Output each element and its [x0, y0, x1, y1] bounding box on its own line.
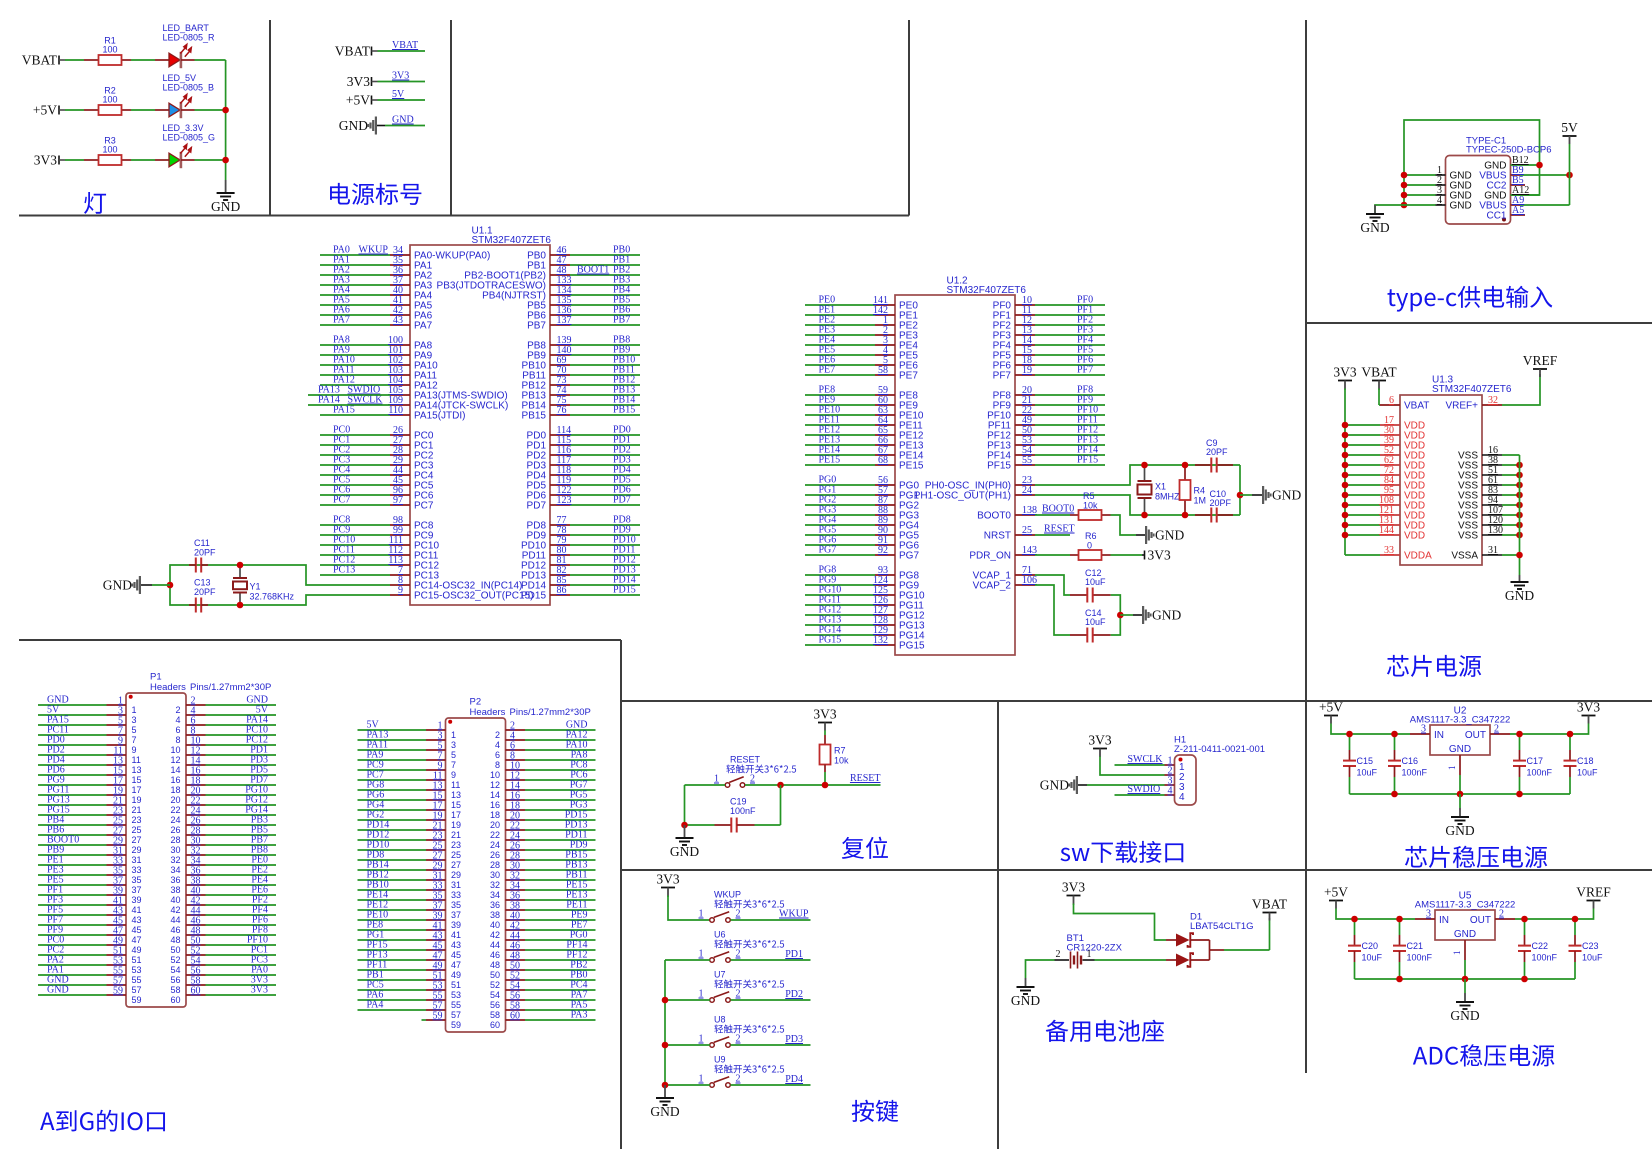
- svg-text:+5V: +5V: [1319, 700, 1343, 715]
- pin 114: [570, 434, 640, 436]
- pin 124: [805, 584, 875, 586]
- svg-text:100: 100: [102, 45, 117, 55]
- wire ph0 to osc loop: [1035, 465, 1240, 485]
- svg-text:100nF: 100nF: [1407, 953, 1433, 963]
- svg-text:C15: C15: [1357, 756, 1374, 766]
- svg-text:BOOT0: BOOT0: [977, 511, 1011, 522]
- svg-text:54: 54: [490, 990, 500, 1000]
- svg-text:3V3: 3V3: [1577, 700, 1600, 715]
- pin 4: [1165, 794, 1175, 796]
- pin 108 VDD: [1345, 504, 1380, 506]
- IC U1.2 STM32F407ZET6: [895, 295, 1015, 655]
- svg-text:3V3: 3V3: [1148, 548, 1171, 563]
- wire: [195, 59, 226, 61]
- pin 128: [805, 624, 875, 626]
- junction: [681, 822, 688, 829]
- svg-text:59: 59: [113, 985, 123, 996]
- svg-text:1: 1: [451, 730, 456, 740]
- svg-text:PA15: PA15: [333, 405, 355, 416]
- pin 81: [570, 564, 640, 566]
- pin 98: [320, 524, 390, 526]
- wire: [1035, 534, 1070, 536]
- svg-text:PA14: PA14: [318, 395, 340, 406]
- pin 65: [805, 434, 875, 436]
- pin 99: [320, 534, 390, 536]
- svg-text:NRST: NRST: [984, 531, 1011, 542]
- svg-text:PF15: PF15: [1077, 455, 1098, 466]
- svg-text:GND: GND: [650, 1104, 679, 1119]
- svg-text:3: 3: [1426, 909, 1431, 920]
- pin 36: [320, 274, 390, 276]
- pin 1: [426, 729, 446, 731]
- ground: [684, 825, 686, 838]
- svg-text:RESET: RESET: [1044, 524, 1075, 535]
- svg-text:PD1: PD1: [785, 949, 803, 960]
- svg-text:PD3: PD3: [785, 1034, 803, 1045]
- svg-text:C19: C19: [730, 797, 747, 807]
- svg-text:26: 26: [170, 825, 180, 835]
- wire button gnd rail: [664, 960, 666, 1085]
- pin 113: [320, 564, 390, 566]
- svg-text:3V3: 3V3: [1333, 365, 1356, 380]
- pin 64: [805, 424, 875, 426]
- pin 91: [805, 544, 875, 546]
- wire: [731, 1044, 811, 1046]
- junction: [662, 997, 669, 1004]
- svg-text:30: 30: [490, 870, 500, 880]
- connector P2 Headers Pins/1.27mm2*30P: [446, 718, 506, 1032]
- svg-text:100nF: 100nF: [730, 806, 756, 816]
- svg-text:GND: GND: [1155, 528, 1184, 543]
- pin 2 OUT: [1495, 918, 1515, 920]
- pin 54: [186, 964, 206, 966]
- wire: [1111, 615, 1121, 635]
- wire: [152, 584, 170, 586]
- junction: [822, 782, 829, 789]
- svg-text:PDR_ON: PDR_ON: [969, 551, 1011, 562]
- pin 75: [570, 404, 640, 406]
- pin 44: [186, 914, 206, 916]
- pin 76: [570, 414, 640, 416]
- ground: [1025, 978, 1027, 987]
- pin 37: [107, 884, 127, 886]
- pin 48: [506, 959, 526, 961]
- svg-text:41: 41: [451, 930, 461, 940]
- wire: [1095, 959, 1167, 961]
- svg-text:138: 138: [1022, 505, 1037, 516]
- svg-text:22: 22: [490, 830, 500, 840]
- wire: [780, 785, 782, 825]
- pin B12 GND: [1511, 164, 1540, 166]
- pin 23 PH0-OSC_IN(PH0): [1015, 484, 1035, 486]
- svg-text:110: 110: [388, 405, 403, 416]
- svg-text:GND: GND: [392, 115, 414, 126]
- svg-text:IN: IN: [1439, 915, 1449, 926]
- pin 50: [1035, 434, 1105, 436]
- wire: [685, 784, 726, 786]
- wire: [1026, 960, 1055, 978]
- svg-text:10uF: 10uF: [1577, 768, 1598, 778]
- pin 11: [426, 779, 446, 781]
- pin 94 VSS: [1482, 504, 1502, 506]
- pin 20: [186, 794, 206, 796]
- svg-text:PD7: PD7: [527, 501, 547, 512]
- pin 20: [506, 819, 526, 821]
- pin 88: [805, 514, 875, 516]
- svg-text:44: 44: [490, 940, 500, 950]
- svg-text:2: 2: [736, 909, 741, 920]
- svg-text:PE7: PE7: [899, 371, 918, 382]
- svg-text:31: 31: [451, 880, 461, 890]
- svg-text:59: 59: [451, 1020, 461, 1030]
- pin 9: [426, 769, 446, 771]
- pin 51 VSS: [1482, 474, 1502, 476]
- section title 芯片稳压电源: [1405, 846, 1547, 868]
- pin 53: [1035, 444, 1105, 446]
- pin 33: [107, 864, 127, 866]
- pin 56: [805, 484, 875, 486]
- svg-text:50: 50: [490, 970, 500, 980]
- crystal Y1: [239, 565, 241, 578]
- pin 12: [186, 754, 206, 756]
- pin A9 VBUS: [1511, 204, 1521, 206]
- pin 22: [506, 829, 526, 831]
- wire: [1115, 794, 1165, 796]
- svg-text:32: 32: [490, 880, 500, 890]
- svg-text:10: 10: [170, 745, 180, 755]
- pin 87: [805, 504, 875, 506]
- svg-text:1: 1: [1452, 951, 1462, 956]
- svg-text:14: 14: [490, 790, 500, 800]
- svg-text:24: 24: [490, 840, 500, 850]
- svg-text:PB7: PB7: [613, 315, 630, 326]
- pin 70: [570, 374, 640, 376]
- svg-text:C11: C11: [194, 538, 210, 548]
- ground: [1252, 494, 1262, 496]
- svg-text:59: 59: [132, 995, 142, 1005]
- capacitor C12: [1070, 594, 1087, 596]
- pin 115: [570, 444, 640, 446]
- pin 3 IN: [1415, 918, 1435, 920]
- pin 1 GND: [1436, 174, 1446, 176]
- pin 68: [805, 464, 875, 466]
- svg-text:OUT: OUT: [1470, 915, 1491, 926]
- pin 45: [107, 924, 127, 926]
- svg-text:9: 9: [398, 585, 403, 596]
- svg-text:39: 39: [132, 895, 142, 905]
- svg-text:37: 37: [451, 910, 461, 920]
- section border right column v: [1305, 20, 1307, 1073]
- pin 50: [506, 969, 526, 971]
- svg-text:PC7: PC7: [414, 501, 434, 512]
- svg-text:40: 40: [490, 920, 500, 930]
- pin 92: [805, 554, 875, 556]
- svg-text:3: 3: [451, 740, 456, 750]
- pin 56: [506, 999, 526, 1001]
- svg-text:VREF+: VREF+: [1445, 401, 1478, 412]
- pin 15: [426, 799, 446, 801]
- wire: [665, 1044, 710, 1046]
- pin 2: [506, 729, 526, 731]
- pin 42: [320, 314, 390, 316]
- svg-text:18: 18: [170, 785, 180, 795]
- section border middle row top: [621, 700, 1652, 702]
- pin 40: [506, 919, 526, 921]
- junction: [237, 602, 244, 609]
- pin 34: [506, 889, 526, 891]
- svg-text:100nF: 100nF: [1532, 953, 1558, 963]
- pin 31: [426, 879, 446, 881]
- svg-text:U9: U9: [714, 1055, 726, 1065]
- capacitor C14: [1070, 634, 1087, 636]
- pin 33 VDDA: [1345, 554, 1380, 556]
- wire: [1502, 374, 1540, 405]
- pin 58: [805, 374, 875, 376]
- pin 2: [805, 334, 875, 336]
- svg-text:9: 9: [132, 745, 137, 755]
- pin 142: [805, 314, 875, 316]
- svg-text:19: 19: [132, 795, 142, 805]
- regulator U5 AMS1117-3.3_C347222: [1435, 910, 1495, 940]
- svg-text:12: 12: [490, 780, 500, 790]
- section title 备用电池座: [1046, 1020, 1164, 1042]
- junction: [1351, 916, 1358, 923]
- svg-text:48: 48: [490, 960, 500, 970]
- pin 130 VSS: [1482, 534, 1502, 536]
- svg-text:VSSA: VSSA: [1451, 551, 1478, 562]
- svg-text:PB7: PB7: [527, 321, 546, 332]
- pin 105: [390, 394, 410, 396]
- svg-text:IN: IN: [1434, 730, 1444, 741]
- svg-text:2: 2: [175, 705, 180, 715]
- svg-text:92: 92: [878, 545, 888, 556]
- pin 53: [107, 964, 127, 966]
- svg-text:4: 4: [1168, 786, 1173, 797]
- svg-text:1M: 1M: [1194, 496, 1207, 506]
- svg-text:10uF: 10uF: [1085, 617, 1106, 627]
- svg-text:PB15: PB15: [522, 411, 547, 422]
- svg-text:R7: R7: [834, 746, 846, 756]
- wire: [1074, 904, 1167, 941]
- svg-text:25: 25: [132, 825, 142, 835]
- resistor R1: [84, 59, 99, 61]
- pin 38 VSS: [1482, 464, 1502, 466]
- svg-text:32.768KHz: 32.768KHz: [250, 592, 295, 602]
- svg-text:LED-0805_B: LED-0805_B: [163, 82, 215, 92]
- pin 57: [426, 1009, 446, 1011]
- svg-text:+5V: +5V: [33, 103, 57, 118]
- svg-text:60: 60: [510, 1010, 520, 1021]
- pin 17 VDD: [1345, 424, 1380, 426]
- pin 47: [107, 934, 127, 936]
- pin 14: [506, 789, 526, 791]
- LED LED_BART: [155, 59, 169, 61]
- svg-text:58: 58: [878, 365, 888, 376]
- section border reset/sw v: [997, 701, 999, 1149]
- svg-text:68: 68: [878, 455, 888, 466]
- wire: [1111, 595, 1121, 615]
- svg-text:60: 60: [170, 995, 180, 1005]
- svg-text:53: 53: [132, 965, 142, 975]
- wire: [65, 59, 84, 61]
- pin 47: [426, 959, 446, 961]
- pin 3: [1165, 784, 1175, 786]
- pin 45: [426, 949, 446, 951]
- svg-text:GND: GND: [1450, 201, 1472, 212]
- pin 27: [426, 859, 446, 861]
- pin B5 CC2: [1511, 184, 1526, 186]
- svg-text:P1: P1: [150, 672, 162, 683]
- svg-text:STM32F407ZET6: STM32F407ZET6: [1432, 384, 1512, 395]
- junction: [222, 157, 229, 164]
- svg-text:PA15(JTDI): PA15(JTDI): [414, 411, 466, 422]
- svg-text:24: 24: [1022, 485, 1032, 496]
- svg-text:11: 11: [451, 780, 460, 790]
- pin 46: [570, 254, 640, 256]
- section title 复位: [842, 837, 888, 859]
- svg-text:PH1-OSC_OUT(PH1): PH1-OSC_OUT(PH1): [914, 491, 1011, 502]
- resistor R2: [84, 109, 99, 111]
- pin 52 VDD: [1345, 454, 1380, 456]
- section border bottom row divider: [621, 869, 1652, 871]
- pin 35: [320, 264, 390, 266]
- svg-text:GND: GND: [1011, 993, 1040, 1008]
- svg-text:OUT: OUT: [1465, 730, 1486, 741]
- pin 50: [186, 944, 206, 946]
- pin 32: [506, 879, 526, 881]
- junction: [237, 562, 244, 569]
- svg-text:46: 46: [490, 950, 500, 960]
- svg-text:20PF: 20PF: [194, 548, 216, 558]
- wire: [745, 784, 881, 786]
- pin 17: [426, 809, 446, 811]
- svg-text:C18: C18: [1577, 756, 1594, 766]
- pin 44: [320, 474, 390, 476]
- wire vdd rail: [1344, 389, 1346, 556]
- pin 5: [107, 724, 127, 726]
- pin 116: [570, 454, 640, 456]
- svg-text:44: 44: [170, 915, 180, 925]
- pin 25: [426, 849, 446, 851]
- svg-text:VBAT: VBAT: [392, 40, 418, 51]
- pin 39: [426, 919, 446, 921]
- svg-text:PF15: PF15: [987, 461, 1011, 472]
- pin 1 GND: [1464, 940, 1466, 960]
- svg-text:29: 29: [132, 845, 142, 855]
- LED LED_3.3V: [155, 159, 169, 161]
- pin 23: [107, 814, 127, 816]
- svg-text:43: 43: [132, 915, 142, 925]
- pin 17: [107, 784, 127, 786]
- svg-text:PA4: PA4: [367, 1000, 384, 1011]
- pin 43: [107, 914, 127, 916]
- junction: [1237, 492, 1244, 499]
- wire: [1115, 764, 1165, 766]
- pin 67: [805, 454, 875, 456]
- pin 143 PDR_ON: [1015, 554, 1035, 556]
- svg-text:17: 17: [132, 785, 142, 795]
- wire osc32 top rail: [170, 565, 390, 605]
- svg-text:5V: 5V: [392, 89, 405, 100]
- pin 51: [107, 954, 127, 956]
- svg-text:C21: C21: [1407, 941, 1424, 951]
- pin 56: [186, 974, 206, 976]
- svg-text:7: 7: [132, 735, 137, 745]
- svg-text:18: 18: [490, 810, 500, 820]
- svg-text:45: 45: [451, 950, 461, 960]
- junction: [662, 1082, 669, 1089]
- svg-text:106: 106: [1022, 575, 1037, 586]
- svg-text:130: 130: [1488, 525, 1503, 536]
- pin 54: [506, 989, 526, 991]
- svg-text:33: 33: [1384, 545, 1394, 556]
- svg-text:29: 29: [451, 870, 461, 880]
- pin 66: [805, 444, 875, 446]
- svg-text:3V3: 3V3: [813, 707, 836, 722]
- svg-text:+5V: +5V: [1324, 885, 1348, 900]
- pin A5 CC1: [1511, 214, 1526, 216]
- junction: [1117, 612, 1124, 619]
- pin 73: [570, 384, 640, 386]
- svg-text:PG7: PG7: [899, 551, 919, 562]
- svg-text:5: 5: [451, 750, 456, 760]
- svg-text:Headers: Headers: [150, 682, 186, 693]
- pin 129: [805, 634, 875, 636]
- section border lamp/power-labels bottom: [19, 215, 909, 217]
- junction: [1401, 202, 1408, 209]
- svg-text:PA7: PA7: [333, 315, 350, 326]
- svg-text:57: 57: [132, 985, 142, 995]
- pin 44: [506, 939, 526, 941]
- pin 27: [107, 834, 127, 836]
- svg-text:31: 31: [132, 855, 142, 865]
- pin 39: [107, 894, 127, 896]
- pin 12: [1035, 324, 1105, 326]
- pin 7: [107, 734, 127, 736]
- svg-text:3V3: 3V3: [1062, 880, 1085, 895]
- capacitor C19: [685, 824, 715, 826]
- crystal X1: [1144, 465, 1146, 481]
- svg-text:51: 51: [451, 980, 461, 990]
- capacitor C16: [1394, 734, 1396, 750]
- svg-text:PF7: PF7: [993, 371, 1012, 382]
- svg-text:GND: GND: [103, 578, 132, 593]
- pin 138 BOOT0: [1015, 514, 1035, 516]
- pin 18: [186, 784, 206, 786]
- svg-text:76: 76: [557, 405, 567, 416]
- svg-text:1: 1: [699, 909, 704, 920]
- pin 74: [570, 394, 640, 396]
- pin 131 VDD: [1345, 524, 1380, 526]
- junction: [167, 582, 174, 589]
- junction: [1401, 192, 1408, 199]
- pin 112: [320, 554, 390, 556]
- pin 24 PH1-OSC_OUT(PH1): [1015, 494, 1035, 496]
- junction: [1401, 182, 1408, 189]
- svg-text:P2: P2: [470, 697, 482, 708]
- wire: [1378, 389, 1380, 406]
- pin 62 VDD: [1345, 464, 1380, 466]
- pin 28: [506, 859, 526, 861]
- section title 灯: [84, 192, 106, 214]
- LED LED_5V: [155, 109, 169, 111]
- svg-text:1: 1: [699, 949, 704, 960]
- pin 72 VDD: [1345, 474, 1380, 476]
- IC U1.1 STM32F407ZET6: [410, 245, 550, 605]
- pin 9: [390, 594, 410, 596]
- svg-text:GND: GND: [211, 199, 240, 214]
- svg-text:WKUP: WKUP: [779, 909, 809, 920]
